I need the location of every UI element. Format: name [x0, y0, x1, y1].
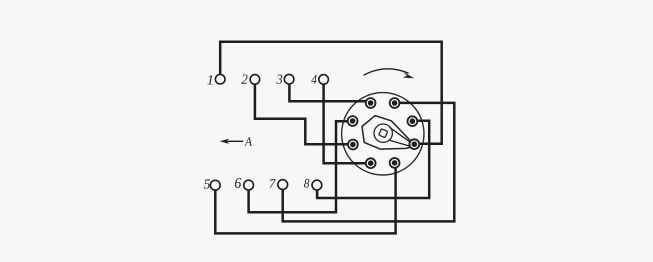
label 4: [311, 75, 316, 84]
wire terminal7 to top-right contact: [283, 103, 455, 221]
label 3: [276, 74, 282, 83]
wire terminal6 to left-upper contact: [249, 121, 348, 212]
label 2: [241, 74, 247, 83]
contact left-lower (to terminal 2): [348, 140, 358, 150]
contact bottom-left (to terminal 4): [366, 158, 376, 168]
rotation direction arrow (clockwise): [364, 69, 409, 75]
terminal 7 circle: [278, 180, 288, 190]
contact top-left (to terminal 3): [366, 98, 376, 108]
terminal 1 circle: [215, 74, 225, 84]
rotor hub circle: [374, 124, 392, 142]
wire terminal3 to top-left contact: [289, 84, 366, 101]
wire terminal4 to bottom-left contact: [324, 84, 366, 163]
wire terminal1 to right-lower contact: [220, 42, 442, 144]
label 5: [204, 179, 210, 188]
terminal 5 circle: [210, 180, 220, 190]
label 6: [235, 178, 241, 188]
terminal 3 circle: [284, 74, 294, 84]
label 8: [304, 179, 309, 188]
contact top-right (to terminal 7): [390, 98, 400, 108]
distributor cap body: [342, 93, 424, 175]
label A: [244, 137, 252, 146]
terminal 4 circle: [319, 75, 329, 85]
rotor hub square: [379, 129, 388, 138]
rotor pointer blade: [389, 127, 414, 146]
terminal 2 circle: [250, 75, 260, 85]
contact bottom-right (to terminal 5): [390, 158, 400, 168]
contact left-upper (to terminal 6): [348, 116, 358, 126]
label 1: [207, 75, 212, 84]
terminal 8 circle: [312, 180, 322, 190]
arrow A (rotor shaft direction): [223, 140, 244, 142]
label 7: [270, 179, 276, 187]
wire terminal2 to left-lower contact: [255, 84, 348, 144]
wire terminal5 to bottom-right contact: [215, 168, 395, 234]
rotor body: [362, 116, 413, 150]
terminal 6 circle: [244, 180, 254, 190]
contact right-upper (to terminal 8): [408, 116, 418, 126]
contact right-lower (to terminal 1, rotor points here): [409, 139, 419, 149]
wire terminal8 to right-upper contact: [317, 121, 429, 198]
